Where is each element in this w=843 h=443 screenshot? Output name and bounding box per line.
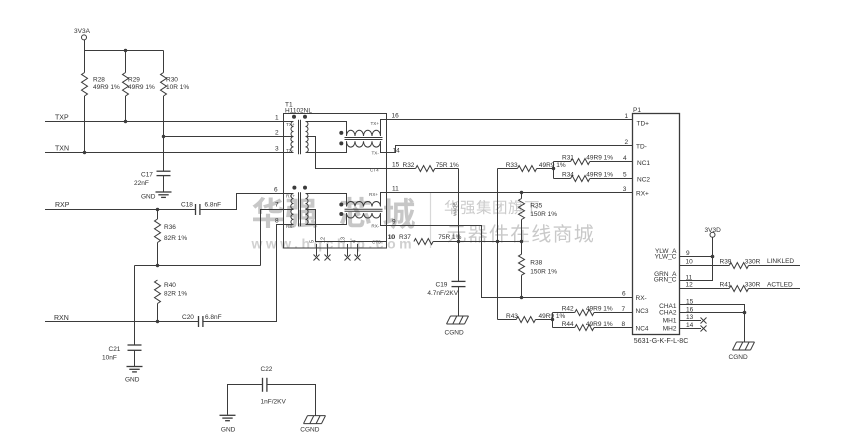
svg-text:8: 8 <box>622 321 626 328</box>
watermark glyph 元-lg <box>448 226 466 243</box>
svg-text:5: 5 <box>310 240 316 243</box>
svg-text:22nF: 22nF <box>134 180 149 187</box>
resistor R28 <box>82 51 120 153</box>
svg-text:2: 2 <box>275 129 279 136</box>
svg-text:4: 4 <box>352 240 358 243</box>
svg-text:TD+: TD+ <box>637 121 650 128</box>
node R28/TXN junction <box>83 151 86 154</box>
svg-text:12: 12 <box>686 282 694 289</box>
svg-text:C19: C19 <box>436 281 448 288</box>
svg-text:R36: R36 <box>164 224 176 231</box>
wire T1 TX secondary bottom to choke <box>306 141 347 152</box>
watermark glyph 集-med <box>476 200 491 214</box>
svg-text:C21: C21 <box>109 346 121 353</box>
svg-text:8: 8 <box>275 218 279 225</box>
ground GND at C17 <box>141 192 172 201</box>
svg-text:CGND: CGND <box>729 354 748 361</box>
svg-text:CGND: CGND <box>445 330 464 337</box>
wire T1 RX- out (pin9) <box>381 213 387 226</box>
resistor R33 <box>498 162 566 172</box>
watermark glyph 城-lg <box>575 224 594 243</box>
resistor R34 <box>554 171 633 181</box>
T1 RX choke core <box>345 209 383 211</box>
svg-text:R29: R29 <box>128 77 140 84</box>
resistor R30 <box>161 51 190 137</box>
wire P1 pin13 MH1 <box>680 320 702 322</box>
wire C22 left to GND <box>228 385 263 415</box>
resistor R40 <box>155 280 188 322</box>
svg-text:75R 1%: 75R 1% <box>436 162 459 169</box>
svg-text:R43: R43 <box>506 313 518 320</box>
svg-text:MH2: MH2 <box>663 325 677 332</box>
T1 TX core <box>299 120 301 155</box>
svg-text:TX-: TX- <box>286 148 294 153</box>
resistor R44 <box>553 321 633 331</box>
svg-text:GND: GND <box>141 194 156 201</box>
svg-text:10: 10 <box>388 234 396 241</box>
wire C22 right to CGND <box>267 385 316 416</box>
node 3V3A/R29 junction <box>124 49 127 52</box>
svg-text:R37: R37 <box>399 234 411 241</box>
svg-text:TX+: TX+ <box>371 121 380 126</box>
svg-text:NC3: NC3 <box>636 308 649 315</box>
chassis ground CGND at C22 <box>300 416 325 434</box>
watermark glyph 件-lg <box>490 224 509 242</box>
svg-text:WADE: WADE <box>453 202 458 216</box>
svg-text:RX+: RX+ <box>636 191 649 198</box>
ground GND at C21 <box>125 367 143 384</box>
watermark glyph 在-lg <box>511 224 529 242</box>
wire R42/R44 bracket <box>552 313 554 328</box>
svg-text:R32: R32 <box>403 162 415 169</box>
svg-text:RX+: RX+ <box>369 192 378 197</box>
wire P1 pin9 YLW_A <box>680 256 713 258</box>
svg-text:3: 3 <box>275 146 279 153</box>
svg-text:NC1: NC1 <box>637 160 650 167</box>
node R36/R40 junction <box>156 264 159 267</box>
svg-text:CT3: CT3 <box>372 240 381 245</box>
svg-text:YLW_C: YLW_C <box>655 254 677 261</box>
connector P1 <box>633 107 689 345</box>
resistor R41 and wire ACTLED <box>680 282 801 292</box>
svg-text:LINKLED: LINKLED <box>767 258 794 265</box>
T1 RX primary winding polarity dots <box>292 186 296 190</box>
wire TXN net <box>45 152 284 154</box>
wire T1 CT3 tap <box>306 210 387 242</box>
wire R31/R34 bracket <box>553 162 555 179</box>
svg-text:R40: R40 <box>164 282 176 289</box>
watermark glyph 商-lg <box>554 224 572 243</box>
svg-text:RX-: RX- <box>636 295 647 302</box>
svg-text:R44: R44 <box>562 321 574 328</box>
capacitor C20 <box>182 314 222 327</box>
no-connect X on MH2 <box>701 326 707 332</box>
T1 unused pin stub 12 <box>321 237 328 256</box>
wire T1 RX secondary bottom to choke <box>306 213 347 225</box>
watermark glyph 下-med <box>525 201 539 214</box>
svg-text:TXN: TXN <box>55 146 69 153</box>
resistor R37 <box>388 234 522 245</box>
svg-text:1nF/2KV: 1nF/2KV <box>261 399 287 406</box>
svg-text:11: 11 <box>686 274 693 281</box>
no-connect X on T1 pin13 <box>345 255 351 261</box>
svg-text:150R 1%: 150R 1% <box>530 269 557 276</box>
capacitor C19 <box>427 242 465 317</box>
wire RX- net (T1 pin9 to P1 pin6) <box>387 226 633 298</box>
T1 TX primary winding <box>284 122 295 154</box>
capacitor C18 <box>181 202 221 216</box>
power symbol 3V3A <box>74 28 91 40</box>
resistor R43 <box>498 313 566 322</box>
watermark glyph 强-med <box>461 201 475 215</box>
wire 3V3A rail <box>85 40 164 51</box>
T1 RX primary winding <box>284 194 296 230</box>
resistor R35 <box>519 193 558 242</box>
svg-text:CHA2: CHA2 <box>659 309 677 316</box>
svg-text:49R9 1%: 49R9 1% <box>586 306 613 313</box>
resistor R31 <box>554 155 633 165</box>
svg-text:13: 13 <box>341 237 347 243</box>
watermark glyph 华-big <box>253 197 284 228</box>
svg-text:R39: R39 <box>720 258 732 265</box>
node R33/R31/R34 junction <box>552 167 555 170</box>
T1 unused pin stub 13 <box>341 237 348 256</box>
svg-text:R42: R42 <box>562 306 574 313</box>
T1 TX choke core <box>345 138 383 140</box>
svg-text:RXN: RXN <box>54 315 69 322</box>
T1 unused pin stub 5 <box>310 240 317 256</box>
T1 TX primary winding polarity dots <box>292 115 296 119</box>
wire T1 RX+ out (pin11) <box>381 193 387 207</box>
svg-text:9: 9 <box>686 250 690 257</box>
wire P1 pin15 CHA1 <box>680 305 745 313</box>
wire RXN net <box>45 321 198 323</box>
svg-text:MH1: MH1 <box>663 317 677 324</box>
resistor R29 <box>123 51 155 122</box>
wire CHA to CGND <box>744 313 746 343</box>
svg-text:330R: 330R <box>745 282 761 289</box>
svg-text:15: 15 <box>392 162 400 169</box>
svg-text:R30: R30 <box>166 77 178 84</box>
node R30/CT2 junction <box>162 135 165 138</box>
resistor R38 <box>519 242 558 298</box>
watermark glyph 团-med <box>493 201 506 215</box>
wire R32 to CT3 row (vertical) <box>458 169 460 242</box>
svg-text:GND: GND <box>221 427 236 434</box>
svg-text:RX-: RX- <box>371 224 379 229</box>
power symbol 3V3D <box>705 227 722 237</box>
T1 TX choke bottom winding <box>347 141 381 147</box>
svg-text:82R 1%: 82R 1% <box>164 291 187 298</box>
svg-text:82R 1%: 82R 1% <box>164 235 187 242</box>
svg-text:11: 11 <box>392 186 399 193</box>
svg-text:6: 6 <box>622 291 626 298</box>
svg-text:7: 7 <box>622 306 626 313</box>
transformer T1 H1102NL <box>284 102 387 249</box>
svg-text:RXP: RXP <box>55 202 70 209</box>
svg-text:330R: 330R <box>745 258 761 265</box>
capacitor C22 <box>261 366 287 406</box>
watermark glyph 强-big <box>286 199 317 229</box>
svg-text:1: 1 <box>625 113 629 120</box>
svg-text:3: 3 <box>623 186 627 193</box>
T1 TX secondary winding <box>306 122 309 153</box>
wire P1 pin14 MH2 <box>680 328 702 330</box>
svg-text:10R 1%: 10R 1% <box>166 84 189 91</box>
svg-text:TD-: TD- <box>636 143 647 150</box>
svg-text:12: 12 <box>321 237 327 243</box>
wire RXN to T1 pin8 <box>203 225 284 322</box>
capacitor C17 <box>134 137 171 192</box>
svg-text:NC4: NC4 <box>636 326 649 333</box>
no-connect X on MH1 <box>701 318 707 324</box>
resistor R42 <box>553 306 633 316</box>
svg-text:49R9 1%: 49R9 1% <box>586 155 613 162</box>
svg-text:4: 4 <box>623 155 627 162</box>
no-connect X on T1 pin5 <box>314 255 320 261</box>
node R40/RXN junction <box>156 320 159 323</box>
node R33-R43 branch/CT3 junction <box>496 240 499 243</box>
wire T1 TX+ out (pin16) <box>381 120 387 137</box>
svg-text:2: 2 <box>625 139 629 146</box>
svg-text:R31: R31 <box>562 155 574 162</box>
wire TX center tap (pin2) <box>164 136 284 138</box>
svg-text:75R 1%: 75R 1% <box>438 234 461 241</box>
T1 RX secondary winding <box>306 194 309 225</box>
watermark glyph 旗-med <box>509 200 523 214</box>
svg-text:16: 16 <box>392 112 400 119</box>
svg-text:C22: C22 <box>261 366 273 373</box>
svg-text:1: 1 <box>275 114 279 121</box>
svg-text:R34: R34 <box>562 171 574 178</box>
svg-text:R38: R38 <box>530 260 542 267</box>
T1 unused pin stub 4 <box>352 240 358 256</box>
svg-text:TX+: TX+ <box>286 122 295 127</box>
node C19/CT3 junction <box>457 240 460 243</box>
svg-text:NC2: NC2 <box>637 176 650 183</box>
svg-text:TXP: TXP <box>55 115 69 122</box>
resistor R39 and wire LINKLED <box>680 258 801 268</box>
no-connect X on T1 pin4 <box>355 255 361 261</box>
node R29/TXP junction <box>124 120 127 123</box>
watermark glyph 芯-big <box>340 197 371 227</box>
T1 RX choke bottom winding <box>347 213 381 218</box>
T1 RX choke polarity dots <box>339 203 343 207</box>
wire T1 TX secondary top to choke <box>306 122 347 137</box>
svg-text:5631-G-K-F-L-8C: 5631-G-K-F-L-8C <box>634 338 688 345</box>
resistor R32 <box>387 162 460 172</box>
node R43/R42/R44 junction <box>551 318 554 321</box>
T1 TX choke polarity dots <box>339 131 343 135</box>
svg-text:9: 9 <box>392 219 396 226</box>
T1 RX core <box>299 192 301 226</box>
svg-text:6: 6 <box>274 187 278 194</box>
svg-text:R41: R41 <box>720 282 732 289</box>
svg-text:CT4: CT4 <box>370 168 379 173</box>
watermark glyph 器-lg <box>468 225 487 243</box>
chassis ground CGND at C19 <box>445 316 469 337</box>
wire T1 CT4 tap <box>306 137 387 169</box>
node CHA junction <box>743 311 747 315</box>
T1 TX choke top winding <box>347 130 381 136</box>
svg-text:3V3A: 3V3A <box>74 28 91 35</box>
wire RXP to T1 pin6 <box>200 194 284 210</box>
watermark glyph 线-lg <box>532 224 550 242</box>
svg-text:5: 5 <box>623 172 627 179</box>
wire TD+ net (T1 pin16 to P1 pin1) <box>387 119 633 121</box>
svg-text:C20: C20 <box>182 314 194 321</box>
wire 3V3D to pin9/pin11 <box>680 237 713 280</box>
node R35/RX+ junction <box>520 191 523 194</box>
wire RXP net <box>45 209 196 211</box>
svg-text:14: 14 <box>393 147 401 154</box>
watermark glyph 华-med <box>445 200 459 214</box>
svg-text:49R9 1%: 49R9 1% <box>93 84 120 91</box>
ground GND at C22 <box>220 415 236 433</box>
svg-text:RX-: RX- <box>286 224 294 229</box>
wire T1 RX secondary top to choke <box>306 194 347 207</box>
WATERMARKS <box>251 193 594 252</box>
wire TD- net (T1 pin14 to P1 pin2) <box>387 146 633 153</box>
wire P1 pin16 CHA2 <box>680 312 745 314</box>
svg-text:R28: R28 <box>93 77 105 84</box>
chassis ground CGND at P1 <box>729 342 755 361</box>
node R38/RX- junction <box>520 296 523 299</box>
svg-text:ACTLED: ACTLED <box>767 281 793 288</box>
svg-text:R35: R35 <box>530 202 542 209</box>
wire RX+ net (T1 pin11 to P1 pin3) <box>387 192 633 194</box>
no-connect X on T1 pin12 <box>325 255 331 261</box>
svg-text:3V3D: 3V3D <box>705 227 722 234</box>
svg-text:10: 10 <box>686 258 694 265</box>
svg-text:CGND: CGND <box>300 427 319 434</box>
svg-text:GRN_C: GRN_C <box>654 277 677 284</box>
svg-text:RX+: RX+ <box>286 194 295 199</box>
svg-text:150R 1%: 150R 1% <box>530 211 557 218</box>
node R35-R38/CT3 junction <box>520 240 523 243</box>
node 3V3D/YLW_A junction <box>711 255 715 259</box>
svg-text:C18: C18 <box>181 202 193 209</box>
svg-text:GND: GND <box>125 377 140 384</box>
node R36/RXP junction <box>156 208 159 211</box>
wire TXP net <box>45 121 284 123</box>
svg-text:R33: R33 <box>506 162 518 169</box>
wire T1 TX- out (pin14) <box>381 141 387 152</box>
svg-text:6.8nF: 6.8nF <box>205 314 222 321</box>
watermark glyph 城-big <box>383 198 415 229</box>
svg-text:7: 7 <box>275 202 279 209</box>
svg-text:49R9 1%: 49R9 1% <box>586 171 613 178</box>
T1 RX choke top winding <box>347 202 381 207</box>
svg-text:6.8nF: 6.8nF <box>205 202 222 209</box>
wire R33/R43 branch vertical <box>497 169 499 320</box>
capacitor C21 <box>102 266 142 367</box>
svg-text:10nF: 10nF <box>102 355 117 362</box>
wire center-tap row to T1 pin7 <box>261 210 284 266</box>
resistor R36 <box>155 210 188 266</box>
svg-text:C17: C17 <box>141 172 153 179</box>
svg-text:49R9 1%: 49R9 1% <box>128 84 155 91</box>
svg-text:TX-: TX- <box>372 151 380 156</box>
wire RX center-tap row <box>135 265 261 267</box>
svg-text:49R9 1%: 49R9 1% <box>586 321 613 328</box>
svg-text:4.7nF/2KV: 4.7nF/2KV <box>427 290 458 297</box>
